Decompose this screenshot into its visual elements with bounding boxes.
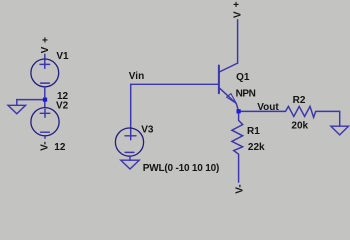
svg-text:V3: V3 xyxy=(141,124,154,135)
svg-text:V-: V- xyxy=(235,184,246,193)
svg-text:20k: 20k xyxy=(291,121,308,132)
svg-text:+: + xyxy=(233,0,239,11)
svg-text:NPN: NPN xyxy=(236,89,256,100)
svg-text:V1: V1 xyxy=(56,51,69,62)
svg-text:V: V xyxy=(40,46,51,53)
svg-text:R2: R2 xyxy=(293,95,306,106)
svg-text:R1: R1 xyxy=(247,126,260,137)
svg-text:V2: V2 xyxy=(56,100,69,111)
svg-text:V-: V- xyxy=(40,141,51,150)
svg-text:22k: 22k xyxy=(248,142,265,153)
svg-text:V: V xyxy=(232,11,243,18)
svg-text:Vin: Vin xyxy=(129,71,144,82)
svg-text:Vout: Vout xyxy=(257,102,279,113)
svg-text:Q1: Q1 xyxy=(236,72,250,83)
svg-text:12: 12 xyxy=(54,142,66,153)
svg-text:PWL(0 -10 10 10): PWL(0 -10 10 10) xyxy=(143,163,219,174)
svg-text:+: + xyxy=(42,36,48,47)
